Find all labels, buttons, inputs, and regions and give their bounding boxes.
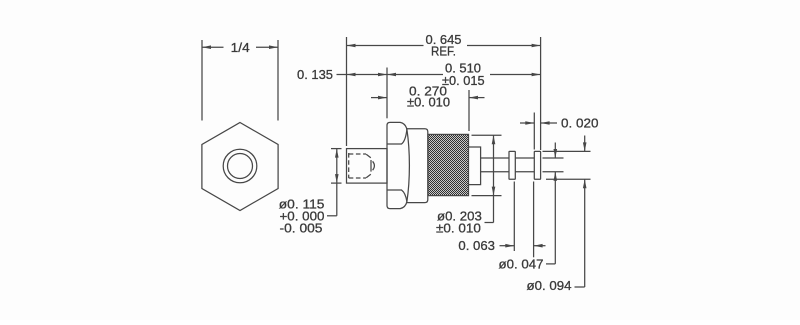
hex body front view: [202, 123, 278, 211]
dim dia 0.047: vertical dimension line, outside arrows: [554, 143, 556, 159]
svg-text:ø0. 094: ø0. 094: [527, 278, 572, 293]
insulator disc 1: [509, 151, 515, 179]
dim 0.510: dimension line (left arrow at hex face, right at tip): [387, 74, 443, 76]
inner circle (bore): [228, 154, 253, 179]
dim dia 0.094: vertical dimension line, outside arrows: [584, 136, 586, 152]
dim 0.645 REF: left extension line: [346, 37, 348, 146]
svg-text:0. 135: 0. 135: [297, 67, 333, 82]
svg-text:±0. 010: ±0. 010: [407, 95, 450, 110]
dim dia 0.047: hook to text: [546, 263, 555, 265]
outer circle (mounting boss): [223, 149, 257, 183]
dim dia 0.115: extension ticks left of rear cylinder: [331, 148, 342, 150]
dim dia 0.094: hook to text: [575, 286, 585, 288]
step cylinder after knurl: [469, 147, 481, 185]
dim dia 0.203: vertical dimension line with outward arrows and tail: [493, 135, 495, 222]
dim 0.270: extension line at hex face: [386, 68, 388, 119]
dim dia 0.203: extension lines right of knurl: [472, 134, 502, 136]
flange washer behind nut: [406, 129, 428, 203]
svg-text:±0. 010: ±0. 010: [436, 221, 481, 236]
svg-text:±0. 015: ±0. 015: [442, 73, 485, 88]
dimension 1/4: extension line right: [277, 40, 279, 121]
svg-text:ø0. 047: ø0. 047: [499, 257, 544, 272]
dim 0.063: extension line at disc2 left: [533, 182, 535, 258]
hidden bore (dashed): [349, 153, 366, 178]
svg-text:-0. 005: -0. 005: [280, 221, 323, 236]
dim 0.270: outside arrows: [371, 97, 387, 99]
dim dia 0.115: hook to text: [327, 215, 337, 217]
contact shaft segment 1: [481, 157, 509, 159]
hex nut facet line upper: [387, 129, 407, 144]
dim 0.135: leader and dimension line with outward arrows: [337, 74, 388, 76]
dim 0.020: extension line at disc2 left: [533, 113, 535, 150]
dim dia 0.115: vertical dimension line with outward arrows and tail: [336, 149, 338, 216]
dim 0.020: outside arrows and leader to text: [520, 122, 534, 124]
dimension 1/4: extension line left: [201, 40, 203, 121]
dim 0.645 REF: dimension line: [347, 45, 424, 47]
dim dia 0.094: extension lines at disc: [543, 150, 591, 152]
insulator disc 2: [534, 151, 540, 179]
dim 0.063: extension line at disc1 right: [513, 182, 515, 252]
svg-text:REF.: REF.: [431, 44, 456, 59]
dim dia 0.047: extension lines at shaft: [543, 157, 564, 159]
dim dia 0.203: hook to text: [485, 222, 494, 224]
hex nut facet line lower: [387, 190, 407, 202]
svg-text:0. 063: 0. 063: [458, 238, 495, 253]
dim 0.270: extension line at knurl right: [468, 90, 470, 131]
hex nut side profile: [387, 122, 409, 208]
svg-text:0. 020: 0. 020: [561, 116, 599, 131]
rear cylinder body (0.135 long): [347, 149, 388, 184]
svg-text:1/4: 1/4: [231, 40, 250, 55]
dimension 1/4: dimension line with outward arrows: [202, 46, 224, 48]
contact shaft segment 2: [515, 157, 534, 159]
dim 0.645 REF: right extension line: [540, 37, 542, 150]
dim 0.063: outside arrows: [500, 245, 515, 247]
knurled section: [428, 134, 469, 195]
hidden bore cone point (dashed): [366, 154, 371, 158]
